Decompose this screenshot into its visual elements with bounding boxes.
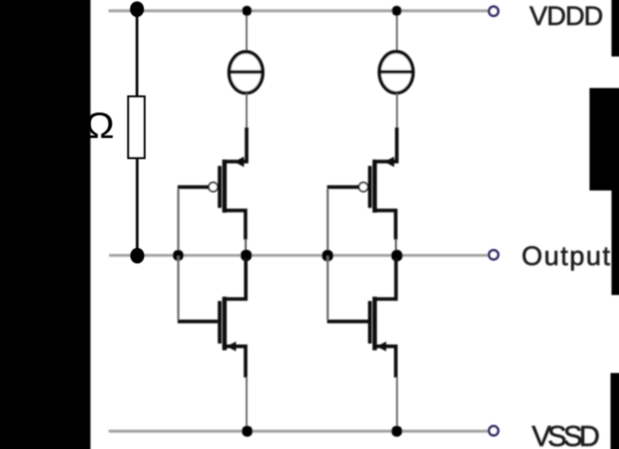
node VDDD-I2 junction [392,6,402,16]
current source I2 [379,52,413,93]
svg-text:Output: Output [522,241,612,271]
right edge black band top [612,0,619,57]
current source I1 [229,52,263,93]
transistor M3 PMOS right [327,128,397,240]
wire M1 drain to Output [245,239,247,255]
svg-text:VSSD: VSSD [532,421,599,449]
wire M1 gate to Output node [177,189,179,255]
node VDDD-I1 junction [242,6,252,16]
left margin black band [0,0,91,449]
wire M2 gate from Output node [177,256,179,320]
right edge black band bottom [611,373,619,449]
node Output-drain1 junction [240,250,252,262]
node Output-drain2 junction [391,250,403,262]
wire M4 gate from Output node [327,256,329,320]
terminal VSSD [489,426,498,435]
wire VDDD rail [109,9,489,12]
wire resistor top lead [136,9,139,97]
wire VSSD rail [109,430,489,433]
node resistor-VDDD junction [130,1,144,17]
svg-text:VDDD: VDDD [530,1,603,31]
node resistor-Output junction [130,248,144,264]
wire I2 to M3 source [396,93,398,129]
wire resistor bottom lead [136,158,139,256]
wire VDDD to current source I2 [396,11,398,52]
transistor M2 NMOS left [178,258,246,378]
terminal VDDD [489,7,498,16]
transistor M4 NMOS right [327,258,396,378]
wire M2 source to VSSD [246,377,248,431]
terminal Output [489,250,498,259]
right edge black band middle [612,190,619,295]
wire I1 to M1 source [246,93,248,129]
wire Output rail [109,254,488,257]
resistor R1 body [128,97,144,159]
node Output-gate1 junction [173,250,184,261]
right edge black block [590,88,619,191]
transistor M1 PMOS left [178,128,247,240]
wire M3 gate to Output node [327,189,329,255]
wire VDDD to current source I1 [246,11,248,52]
wire M4 source to VSSD [396,377,398,431]
node Output-gate2 junction [322,250,334,262]
wire M3 drain to Output [395,239,397,255]
node VSSD-M4 junction [391,426,402,437]
node VSSD-M2 junction [242,426,253,437]
